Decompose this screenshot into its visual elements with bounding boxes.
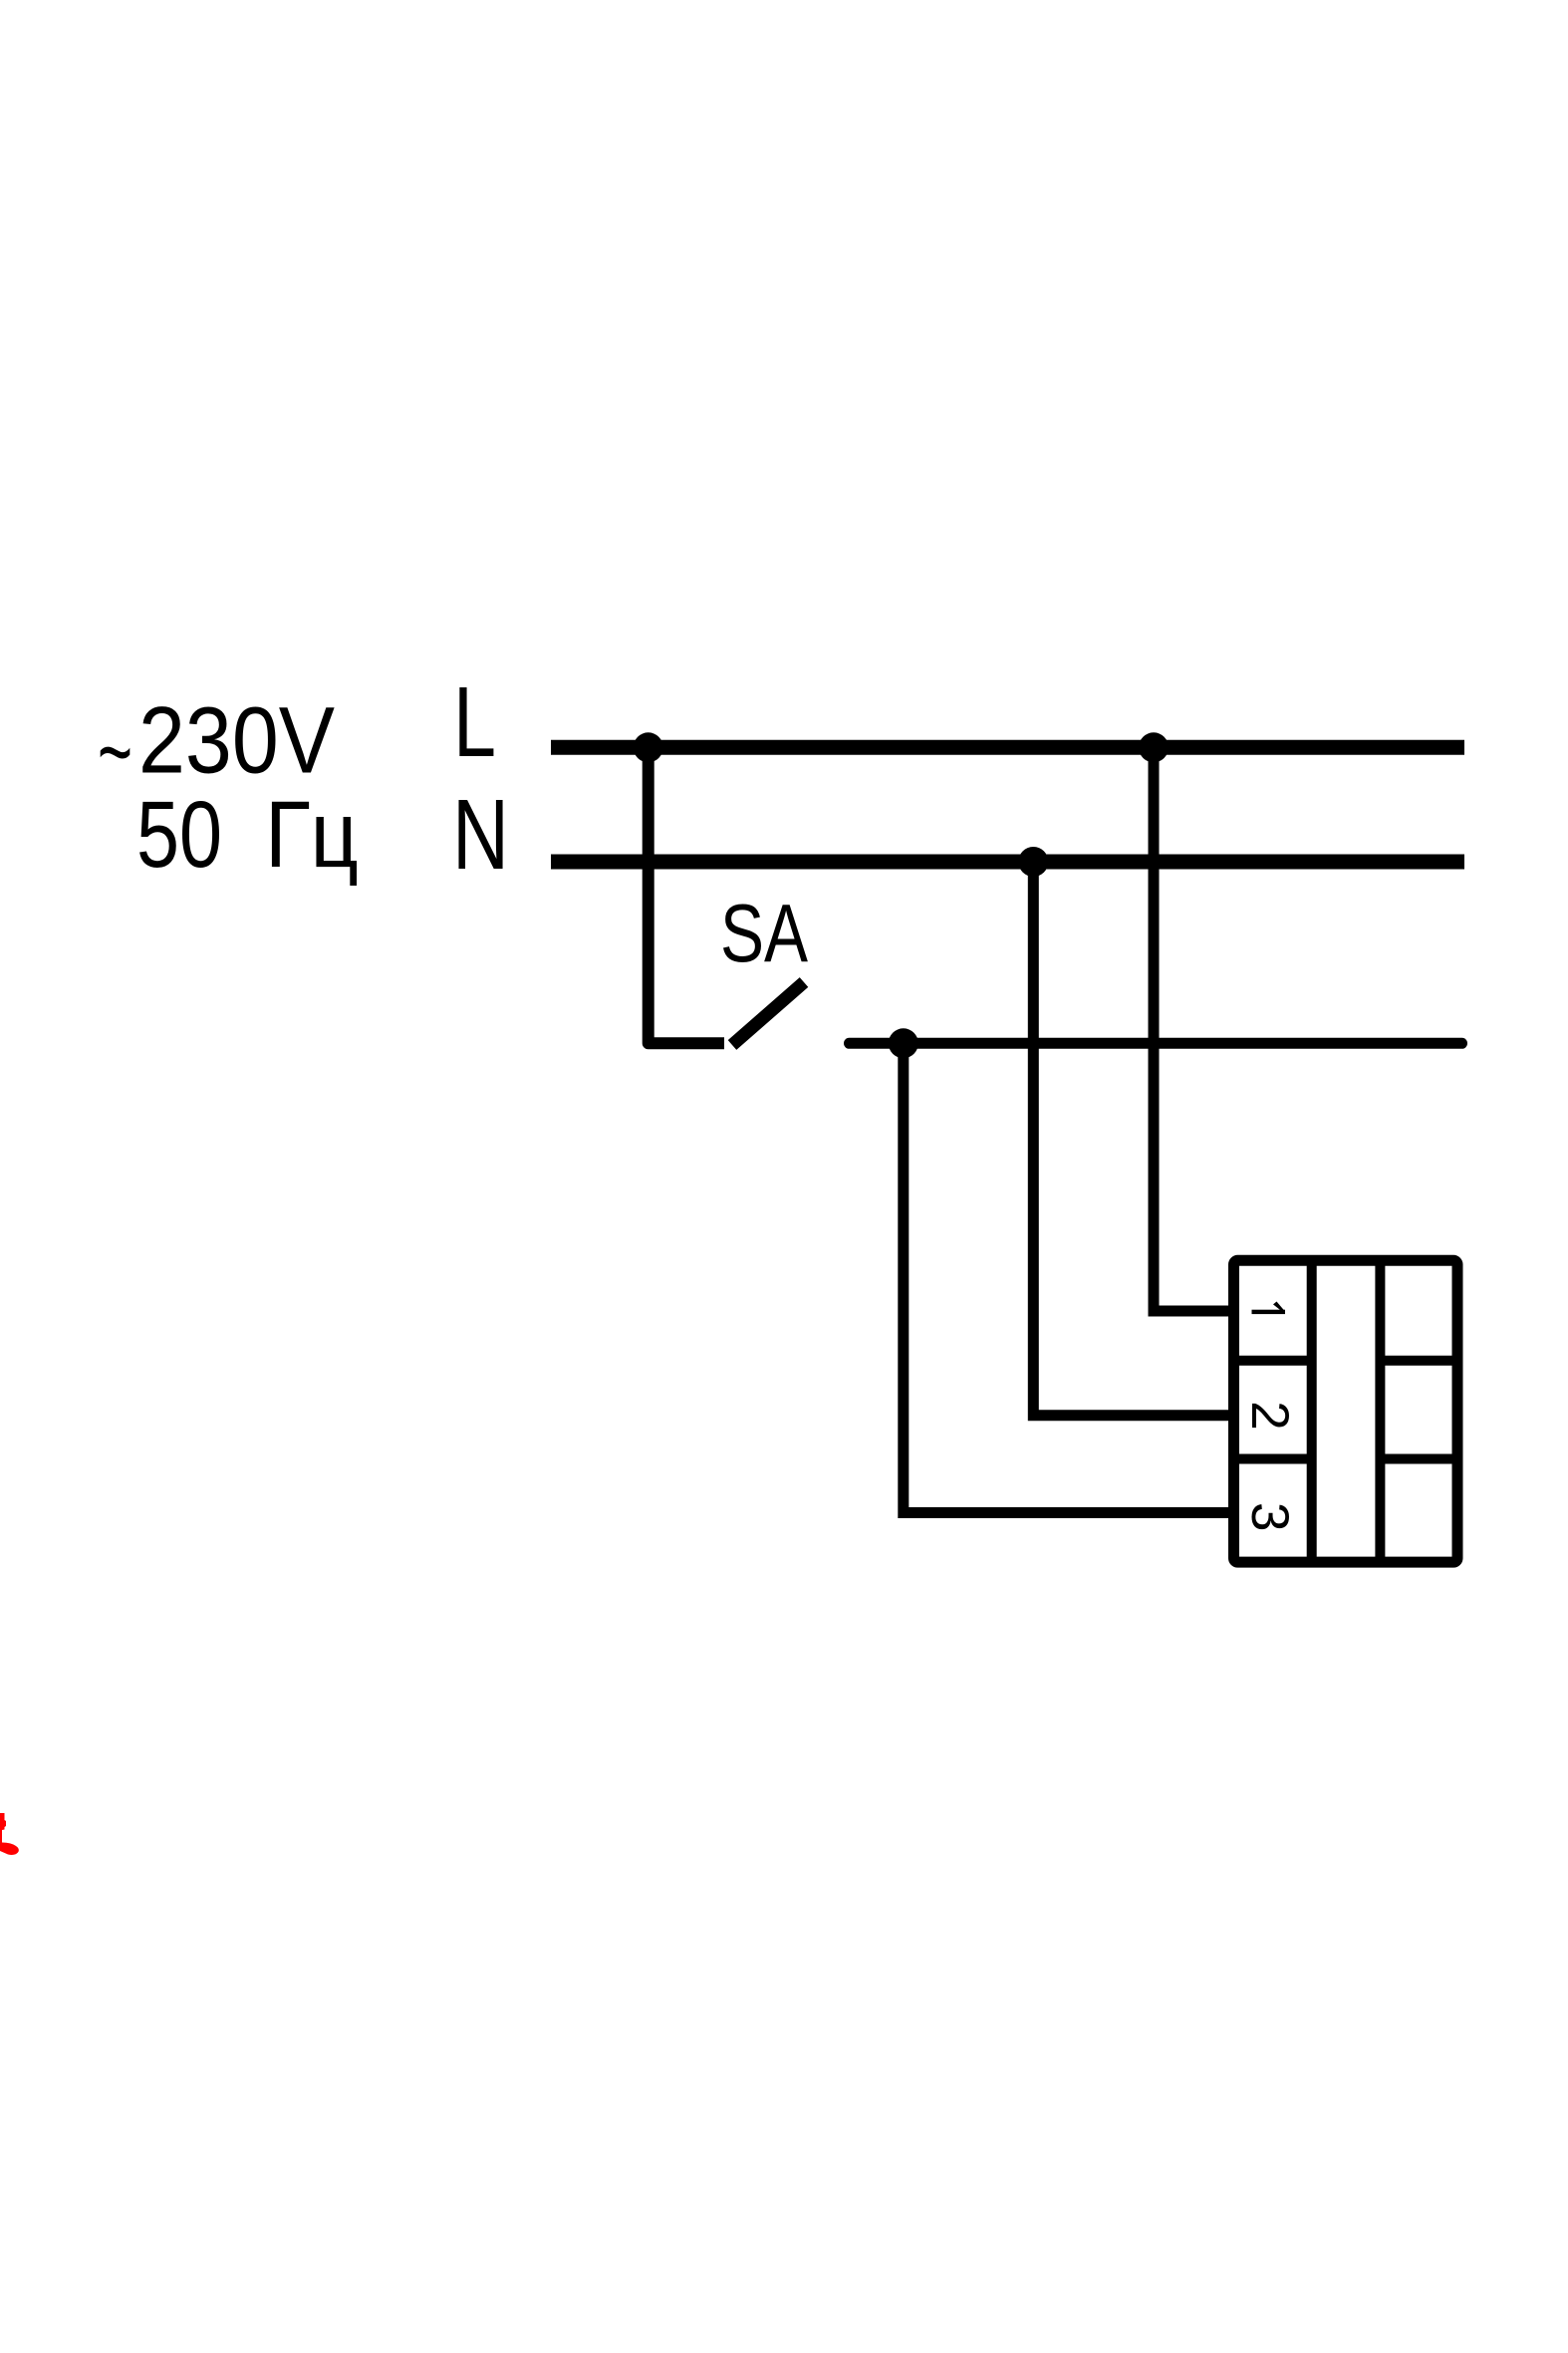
terminal block left divider row 2/3	[1233, 1454, 1312, 1464]
node switch output junction	[889, 1028, 918, 1058]
wire from L junction 2 to terminal 1	[1154, 747, 1235, 1311]
terminal block outer box	[1234, 1260, 1458, 1562]
svg-text:~: ~	[98, 699, 132, 805]
red pen mark at left edge	[0, 1813, 19, 1855]
svg-text:3: 3	[1240, 1502, 1299, 1531]
wire from switch output to terminal 3	[904, 1043, 1235, 1512]
wire from L junction 1 down to switch SA	[649, 747, 724, 1043]
switch SA blade	[732, 982, 804, 1045]
node N junction	[1018, 847, 1048, 877]
svg-text:2: 2	[1240, 1401, 1299, 1430]
terminal block right divider row 2/3	[1380, 1454, 1458, 1464]
terminal pin 1 label	[1252, 1302, 1286, 1315]
terminal block right divider row 1/2	[1380, 1356, 1458, 1366]
terminal block divider left of middle column	[1307, 1260, 1317, 1562]
wire from N junction to terminal 2	[1033, 862, 1235, 1416]
node L junction 2	[1139, 732, 1169, 762]
wire switched line	[850, 1038, 1462, 1049]
terminal pin 2 label	[1240, 1401, 1299, 1430]
wire N bus	[551, 855, 1464, 870]
node L junction 1	[634, 732, 663, 762]
wire L bus	[551, 740, 1464, 755]
terminal pin 3 label	[1240, 1502, 1299, 1531]
terminal block divider right of middle column	[1375, 1260, 1385, 1562]
svg-text:SA: SA	[720, 887, 808, 979]
svg-text:Гц: Гц	[265, 782, 359, 888]
terminal block left divider row 1/2	[1233, 1356, 1312, 1366]
svg-text:L: L	[453, 666, 496, 778]
svg-text:50: 50	[136, 782, 222, 888]
svg-text:N: N	[452, 779, 509, 891]
svg-text:230V: 230V	[138, 688, 335, 794]
